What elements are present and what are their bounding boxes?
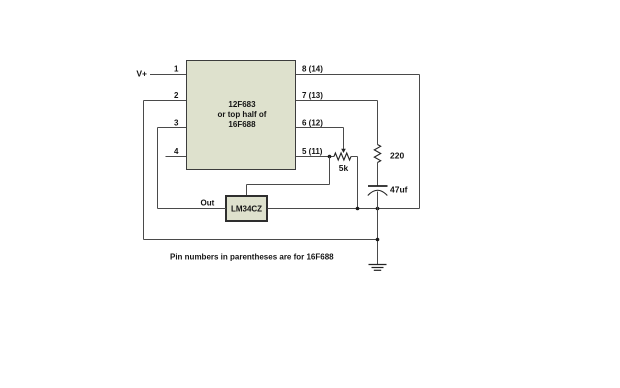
junction ground rail meets cap branch (376, 238, 380, 242)
capacitor C1 bottom curved plate (368, 190, 388, 195)
wire pin 7 to resistor branch (296, 100, 378, 102)
wire pin 8 to right rail (296, 74, 420, 76)
wire pot right terminal down to out node (357, 157, 359, 209)
wire capacitor bottom down to ground (377, 192, 379, 265)
wire pin 5 to potentiometer (296, 156, 334, 158)
svg-text:1: 1 (174, 65, 179, 74)
junction node at pin 5 (328, 155, 332, 159)
wire out node right from LM34CZ (268, 208, 420, 210)
wire potentiometer right lead (351, 156, 358, 158)
potentiometer R2 5k body (334, 153, 351, 160)
svg-text:4: 4 (174, 147, 179, 156)
wire V+ to pin 1 (150, 74, 186, 76)
IC U1 12F683 / top half of 16F688 body (187, 61, 296, 170)
junction cap branch on out wire (376, 207, 380, 211)
wire pin 7 down to resistor R1 top (377, 101, 379, 145)
capacitor C1 47uf top plate (368, 185, 388, 187)
wire pin 3 stub (158, 127, 187, 129)
svg-text:Pin numbers in parentheses are: Pin numbers in parentheses are for 16F68… (170, 253, 334, 262)
wire out node left to pin3 branch (158, 208, 227, 210)
svg-text:2: 2 (174, 91, 179, 100)
wire right rail down (419, 75, 421, 209)
wire down into LM34CZ top pin (246, 185, 248, 197)
wire bottom ground rail (144, 239, 378, 241)
wire pin 4 stub (166, 156, 187, 158)
svg-text:LM34CZ: LM34CZ (231, 205, 262, 214)
wire across to LM34CZ top (247, 184, 330, 186)
resistor R1 220 body (374, 145, 380, 163)
potentiometer wiper arrowhead (341, 149, 346, 153)
svg-text:5 (11): 5 (11) (302, 147, 323, 156)
svg-text:V+: V+ (136, 69, 147, 79)
junction pot terminal on out wire (356, 207, 360, 211)
svg-text:7 (13): 7 (13) (302, 91, 323, 100)
wire pin 6 down to potentiometer wiper arrow (343, 128, 345, 150)
svg-text:Out: Out (201, 199, 215, 208)
wire pin 6 to wiper (296, 127, 344, 129)
wire junction down from pin5 node (329, 157, 331, 185)
ground symbol (369, 265, 387, 271)
svg-text:8 (14): 8 (14) (302, 65, 323, 74)
sensor U2 LM34CZ body (226, 196, 267, 221)
wire pin 3 down to LM34CZ out node (157, 128, 159, 209)
svg-text:220: 220 (390, 151, 404, 161)
wire pin 2 down to ground rail (143, 101, 145, 240)
svg-text:47uf: 47uf (390, 185, 408, 195)
svg-text:6 (12): 6 (12) (302, 119, 323, 128)
wire pin 2 stub (144, 100, 187, 102)
svg-text:5k: 5k (339, 163, 349, 173)
svg-text:3: 3 (174, 119, 179, 128)
wire resistor bottom to capacitor top (377, 163, 379, 186)
